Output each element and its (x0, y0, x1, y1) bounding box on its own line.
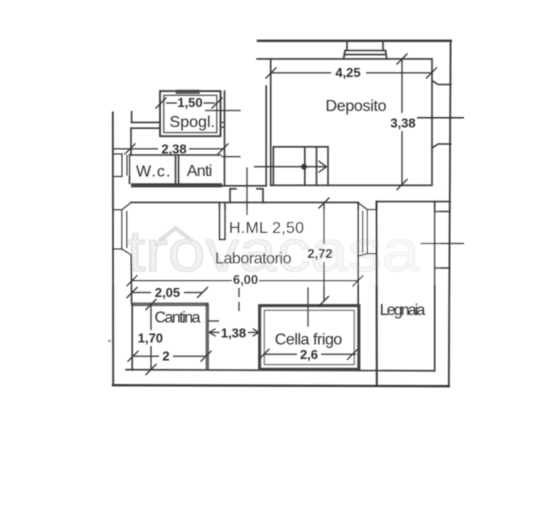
deposito top inner wall (257, 58, 432, 60)
deposito bottom wall (271, 184, 432, 186)
svg-text:1,38: 1,38 (221, 326, 246, 341)
dim 2,38 ticks (125, 143, 136, 154)
svg-text:Legnaia: Legnaia (380, 302, 426, 319)
DIMENSIONS (113, 54, 464, 376)
stair hall wall second line (265, 86, 267, 185)
dim 1,70 ticks (146, 299, 157, 310)
svg-text:H.ML 2,50: H.ML 2,50 (229, 220, 304, 237)
dim 2 line (134, 355, 159, 357)
left outer wall (112, 112, 114, 385)
wall jog lower right (432, 144, 451, 148)
svg-text:Deposito: Deposito (326, 98, 387, 115)
scan speck (108, 340, 111, 343)
legnaia leader line (421, 243, 463, 245)
stair direction arrow (255, 161, 327, 172)
legnaia wall rung upper (435, 211, 450, 213)
dim 2,6 line (263, 353, 297, 355)
cella frigo inner thin box (264, 310, 354, 364)
right outer wall (449, 41, 451, 386)
watermark roof over o (159, 228, 192, 241)
wall band left of spogl (131, 112, 160, 155)
anti top wall extension (222, 156, 240, 158)
spogliatoio inner box (164, 95, 217, 132)
wc anti partition wall (176, 155, 179, 183)
svg-text:1,50: 1,50 (177, 95, 202, 110)
cantina left wall (131, 304, 133, 370)
legnaia left wall (376, 202, 378, 386)
dim 6,00 line (132, 280, 232, 282)
dim 2 ticks (128, 351, 139, 362)
hall bottom wall (222, 185, 266, 187)
svg-text:2: 2 (162, 349, 169, 364)
legnaia wall rung lower (435, 267, 450, 269)
svg-text:Cantina: Cantina (155, 310, 201, 327)
wc window (113, 154, 130, 177)
leader right of spogl (206, 110, 240, 112)
spogliatoio outer box (160, 91, 221, 136)
dashed passage line (238, 289, 240, 315)
top outer wall (258, 40, 451, 42)
wall stub (220, 203, 226, 240)
laboratorio left window (113, 203, 131, 255)
dim 4,25 ticks (266, 67, 277, 78)
thick dark walls (131, 92, 359, 370)
cella frigo thick box (260, 306, 359, 370)
dim 1,50 line (166, 102, 177, 104)
svg-text:Spogl.: Spogl. (170, 114, 216, 131)
spogl dark top bar (176, 90, 200, 94)
dim 1,38 right arrow (248, 331, 259, 333)
laboratorio right wall (357, 202, 359, 370)
dim 1,38 left arrow (209, 331, 220, 333)
cantina top thick wall (131, 302, 208, 306)
stair box (273, 147, 328, 186)
deposito right wall (431, 59, 433, 184)
door notch right (257, 189, 263, 203)
dim 2,6 ticks (259, 349, 270, 360)
bottom outer wall (113, 385, 449, 386)
dim 2,72 ticks (319, 198, 330, 209)
wc anti top wall (130, 154, 221, 156)
svg-text:2,72: 2,72 (307, 246, 332, 261)
anti right wall (224, 91, 226, 186)
legnaia top wall (377, 201, 451, 203)
dim 3,38 ticks (397, 54, 408, 65)
svg-text:2,6: 2,6 (300, 347, 318, 362)
svg-text:1,70: 1,70 (138, 331, 163, 346)
cella frigo leader line (307, 288, 309, 326)
dim 2,38 line (113, 148, 158, 150)
svg-text:3,38: 3,38 (390, 116, 415, 131)
dim 6,00 ticks (127, 275, 138, 286)
wc left inner wall (129, 177, 131, 184)
watermark trovacasa (127, 219, 421, 284)
laboratorio right window (358, 203, 376, 256)
svg-text:Laboratorio: Laboratorio (215, 251, 292, 268)
dim 2,05 ticks (127, 287, 138, 298)
dim 3,38 leader (417, 117, 464, 119)
wall jog upper right (432, 81, 451, 85)
dim 2,72 line (323, 204, 325, 245)
svg-text:2,38: 2,38 (161, 141, 186, 156)
chimney (344, 42, 387, 59)
stair arrow dot (301, 164, 307, 170)
laboratorio left inner wall lower (130, 255, 132, 304)
dim 3,38 line (401, 60, 403, 114)
cantina right thick wall (206, 304, 209, 371)
svg-text:4,25: 4,25 (335, 65, 360, 80)
deposito left wall / stair hall wall (270, 59, 272, 185)
svg-text:W.c.: W.c. (136, 164, 171, 181)
dim 4,25 line (271, 72, 331, 74)
svg-text:6,00: 6,00 (233, 272, 258, 287)
inner bottom wall line (126, 370, 435, 371)
door notch left (230, 189, 236, 203)
legnaia right inner wall (434, 202, 436, 371)
PLAN LINES (108, 41, 463, 386)
dim 1,70 line (150, 305, 152, 331)
svg-text:Cella frigo: Cella frigo (275, 332, 343, 349)
wc anti bottom thick wall (131, 183, 222, 187)
svg-text:2,05: 2,05 (155, 285, 180, 300)
cantina label leader (208, 320, 219, 322)
svg-text:Anti: Anti (187, 163, 213, 180)
laboratorio top wall (131, 201, 358, 203)
H.ML leader line (246, 168, 248, 215)
dim 2,05 line (132, 292, 151, 294)
spogl right wall connectors (221, 121, 225, 123)
dim 1,50 ticks (156, 98, 167, 109)
